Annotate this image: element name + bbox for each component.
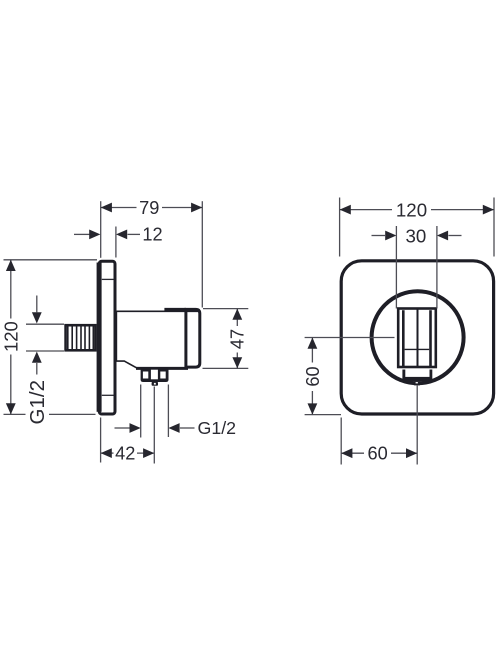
svg-text:79: 79 (139, 198, 159, 218)
svg-text:120: 120 (396, 199, 427, 220)
callout G1/2 (bottom of side view) (115, 418, 237, 438)
center line below nub (416, 386, 418, 465)
handle (front view) (398, 309, 436, 368)
handle base bar (402, 377, 432, 381)
svg-text:42: 42 (115, 443, 135, 463)
svg-text:12: 12 (142, 225, 162, 245)
outlet fitting (side view) (141, 367, 169, 382)
body end cap (side view) (116, 309, 199, 367)
dim G1/2 connector (left) (26, 296, 64, 425)
svg-text:G1/2: G1/2 (198, 418, 237, 438)
extension lines below outlet (141, 385, 169, 464)
dim 60 (front bottom) (341, 418, 417, 465)
trim circle (372, 291, 464, 383)
dim 30 (372, 225, 462, 308)
svg-text:60: 60 (367, 444, 387, 464)
svg-text:30: 30 (406, 225, 427, 246)
dim 47 (203, 309, 249, 369)
handle nub (414, 381, 421, 385)
dim 60 (front vertical) (303, 338, 395, 415)
dim 79 (101, 198, 203, 308)
wall plate (side view) (97, 261, 115, 414)
svg-text:60: 60 (303, 366, 323, 386)
outlet nub (side view) (152, 382, 158, 386)
body (side view) (116, 309, 188, 368)
dim 120 (left) (0, 260, 97, 415)
svg-text:47: 47 (227, 329, 247, 349)
handle collar (402, 370, 432, 378)
dim 12 (74, 225, 163, 258)
dim 42 (101, 418, 155, 464)
wall plate (front view) (341, 261, 493, 414)
svg-text:G1/2: G1/2 (26, 380, 49, 424)
wall connector G1/2 thread (side view) (66, 325, 96, 350)
svg-text:120: 120 (0, 321, 21, 352)
dim 120 (front) (340, 198, 494, 257)
